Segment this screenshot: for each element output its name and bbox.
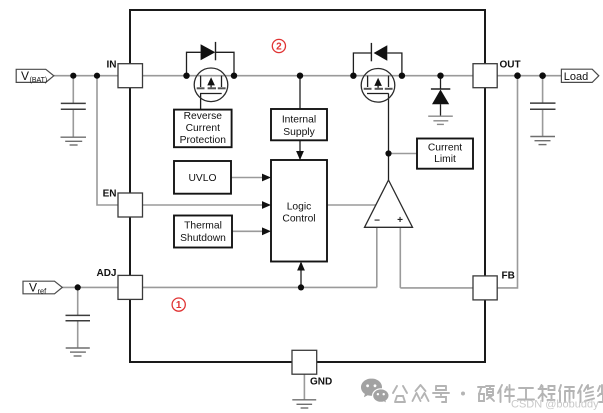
svg-text:V: V <box>29 281 37 295</box>
svg-text:GND: GND <box>310 377 332 388</box>
svg-text:Shutdown: Shutdown <box>180 233 226 244</box>
svg-text:Limit: Limit <box>434 154 456 165</box>
svg-text:−: − <box>374 216 380 227</box>
svg-text:1: 1 <box>176 300 182 311</box>
svg-text:ref: ref <box>38 287 48 296</box>
svg-text:Logic: Logic <box>287 202 312 213</box>
svg-text:ADJ: ADJ <box>96 268 116 279</box>
svg-text:V: V <box>21 69 29 83</box>
svg-text:Current: Current <box>186 123 220 134</box>
svg-text:Internal: Internal <box>282 115 316 126</box>
svg-text:OUT: OUT <box>500 60 521 71</box>
svg-text:FB: FB <box>502 270 515 281</box>
svg-text:2: 2 <box>276 42 282 53</box>
svg-text:EN: EN <box>103 189 117 200</box>
svg-text:Supply: Supply <box>283 127 315 138</box>
svg-text:Control: Control <box>282 214 315 225</box>
svg-text:Load: Load <box>564 71 588 83</box>
svg-text:Current: Current <box>428 143 462 154</box>
svg-text:IN: IN <box>107 60 117 71</box>
svg-text:Reverse: Reverse <box>184 111 223 122</box>
svg-text:Thermal: Thermal <box>184 221 222 232</box>
svg-text:UVLO: UVLO <box>188 173 216 184</box>
svg-text:Protection: Protection <box>180 135 227 146</box>
svg-text:CSDN @bobuddy: CSDN @bobuddy <box>511 399 599 411</box>
svg-text:+: + <box>397 215 403 226</box>
svg-text:(BAT): (BAT) <box>30 77 48 84</box>
